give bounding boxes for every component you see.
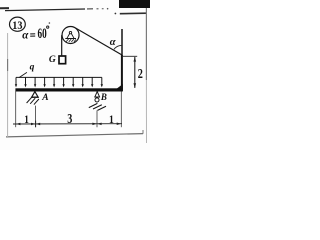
- svg-text:1: 1: [109, 113, 114, 126]
- svg-text:3: 3: [67, 111, 72, 127]
- svg-text:1: 1: [24, 114, 29, 126]
- svg-text:α: α: [22, 29, 29, 41]
- svg-text:60: 60: [38, 26, 47, 42]
- svg-text:13: 13: [12, 20, 22, 32]
- svg-text:q: q: [30, 63, 35, 73]
- svg-text:2: 2: [138, 66, 143, 82]
- svg-text:A: A: [41, 93, 48, 103]
- svg-text:G: G: [49, 55, 56, 65]
- svg-text:B: B: [100, 92, 107, 102]
- svg-text:α: α: [110, 37, 116, 48]
